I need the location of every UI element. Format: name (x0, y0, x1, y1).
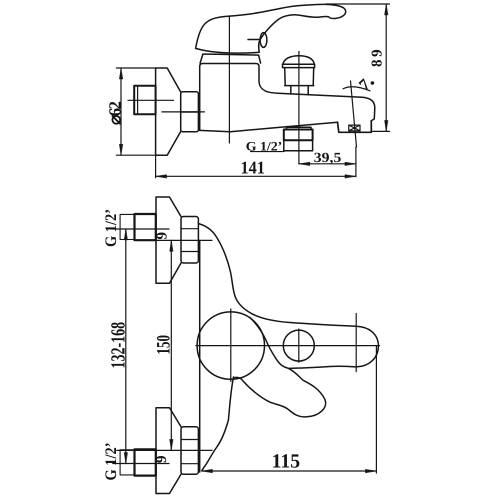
big body circle (197, 312, 264, 379)
spout arm end cap (356, 326, 378, 367)
svg-text:39,5: 39,5 (314, 151, 342, 166)
spout top edge (278, 93, 375, 121)
top nut facet lines (181, 229, 198, 252)
svg-text:⌀62: ⌀62 (105, 101, 124, 125)
shower outlet upper box (284, 130, 313, 141)
svg-text:141: 141 (241, 158, 265, 178)
centerline handle axis (228, 16, 230, 143)
dimension 39,5 right extension (355, 147, 357, 177)
7deg dot (371, 81, 375, 85)
bottom pipe centerline (113, 463, 169, 465)
small circle vertical centerline (298, 329, 300, 362)
mounting nut (side view) (181, 92, 199, 132)
7 degree slanted line (351, 81, 357, 147)
aerator cap (338, 121, 372, 133)
centerline nut (162, 111, 205, 113)
top nut centerline (155, 239, 212, 241)
diverter knob dome (283, 56, 314, 64)
7 degree arc (343, 87, 370, 91)
svg-text:150: 150 (153, 335, 174, 355)
dimension 150 line (170, 240, 172, 450)
wall pipe thread line (137, 86, 139, 114)
dimension 89 arrows (385, 4, 388, 131)
handle screw oval (260, 33, 267, 48)
top escutcheon (156, 197, 181, 283)
top wall pipe thread (120, 214, 134, 239)
dimension 89 extension lines (326, 4, 390, 131)
dimension 39,5 line (299, 163, 356, 165)
dimension 115 line (202, 470, 377, 472)
dimension d62 line (120, 68, 122, 155)
aerator insert box (349, 125, 360, 131)
svg-text:7: 7 (355, 75, 374, 95)
top pipe centerline (113, 228, 169, 230)
diverter knob body (285, 68, 314, 86)
dimension 141 left extension (155, 155, 157, 178)
top wall pipe body (135, 214, 156, 240)
main horizontal centerline (196, 345, 380, 347)
wall escutcheon (side view) (156, 68, 181, 155)
body S-curve to bottom nut (202, 377, 234, 470)
centerline knob/outlet axis (298, 52, 300, 164)
bottom wall pipe thread (120, 450, 134, 475)
spout arm bottom edge (288, 366, 356, 368)
svg-text:9: 9 (155, 232, 171, 240)
handle screw tick (248, 39, 260, 41)
diverter knob neck (291, 86, 308, 95)
dimension 89 line (385, 4, 387, 131)
svg-text:9: 9 (154, 456, 170, 464)
dimension 132-168 arrows (124, 229, 127, 464)
svg-text:115: 115 (272, 451, 301, 473)
cartridge ring (200, 54, 261, 63)
dimension d62 arrows (119, 68, 122, 155)
G 1/2 leader underline (top view) (251, 151, 285, 153)
dimension d62 extension lines (116, 68, 158, 155)
bottom nut centerline (117, 449, 212, 451)
lever grip (234, 318, 325, 417)
spout aerator centerline (front) (355, 314, 357, 372)
centerline wall pipe (128, 99, 174, 101)
dimension 141 line (156, 175, 356, 177)
diverter knob band (283, 64, 315, 67)
svg-text:G 1/2’: G 1/2’ (103, 443, 120, 481)
big circle vertical centerline (230, 309, 232, 382)
svg-text:89: 89 (370, 49, 386, 67)
handle lever (side view) (196, 4, 346, 53)
body (side view) (200, 64, 278, 131)
svg-text:G 1/2’: G 1/2’ (246, 138, 282, 153)
bottom nut facet lines (181, 440, 198, 464)
nut facet line (181, 111, 199, 113)
dimension 115 arrows (202, 469, 377, 472)
dimension 150 arrows (170, 240, 173, 450)
svg-text:132-168: 132-168 (107, 322, 129, 369)
dimension 39,5 arrows (299, 162, 356, 165)
diverter small circle (283, 330, 314, 361)
dimension 141 arrows (156, 175, 356, 178)
aerator insert X (349, 125, 360, 131)
spout bottom edge (200, 122, 338, 132)
bottom wall pipe body (135, 449, 156, 475)
bottom mounting nut (181, 427, 198, 474)
wall pipe (side view) (134, 86, 155, 115)
shower outlet collar (287, 127, 312, 129)
body S-curve from top nut to spout arm (198, 224, 356, 327)
svg-text:G 1/2’: G 1/2’ (103, 209, 120, 247)
bottom escutcheon (156, 408, 181, 494)
dimension 115 right extension (375, 346, 377, 473)
dimension 132-168 line (125, 229, 127, 464)
body vertical line (199, 240, 201, 472)
top mounting nut (181, 217, 198, 264)
shower outlet lower box (284, 140, 313, 151)
